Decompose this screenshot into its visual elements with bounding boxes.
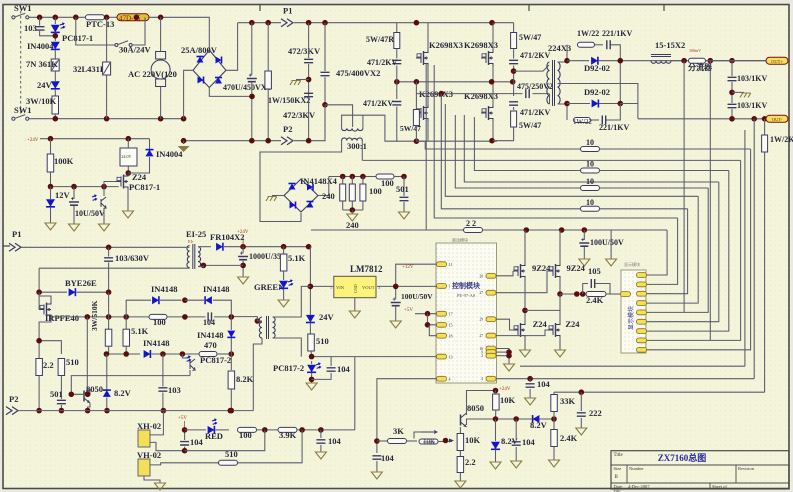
wire [732,91,744,93]
svg-text:GND: GND [353,284,358,293]
wire [455,115,581,188]
wire [108,263,110,293]
svg-text:控制模块: 控制模块 [452,281,481,290]
capacitor 475/400VX2 [324,23,326,71]
svg-text:27: 27 [479,291,483,295]
capacitor 103/630V [108,247,110,256]
svg-text:Size: Size [614,466,622,471]
wire [108,292,110,329]
wire [106,354,108,390]
svg-text:SW1: SW1 [14,105,31,115]
wire [425,63,427,230]
svg-text:11: 11 [449,262,453,267]
title block [611,451,789,489]
junction [228,408,234,414]
connector OUT+ [766,57,788,64]
row y316.9 [51,316,206,318]
svg-text:BYE26E: BYE26E [65,278,97,288]
wire [671,60,686,62]
wire [106,353,140,355]
junction [579,389,585,395]
wire [611,45,620,104]
wire [162,393,164,411]
wire [320,445,322,452]
svg-text:475/400VX2: 475/400VX2 [336,68,380,78]
wire rail y410 [18,410,253,412]
svg-text:104: 104 [190,437,204,447]
varistor 47D-15 [117,14,149,21]
ground [549,460,560,467]
bottom rail left half-bridge [397,140,497,142]
wire [567,60,589,62]
capacitor 103/1KV upper [731,61,733,76]
wire [638,118,768,120]
ground [490,462,501,469]
junction [161,408,167,414]
switch SW1 bottom [12,117,15,120]
svg-text:Z24: Z24 [132,172,147,182]
wire [583,247,585,259]
junction [85,392,91,398]
ground [555,350,566,357]
junction [48,184,54,190]
junction [489,20,495,26]
zener 24V mid [306,315,315,323]
wire [464,115,719,182]
capacitor 470U/450VX4 [251,23,253,75]
ground [155,483,166,490]
svg-text:IN4148: IN4148 [151,284,177,294]
resistor 100 red [238,427,257,432]
wire base [71,394,84,396]
wire pot loop [414,432,421,439]
wire [496,355,509,357]
wire [533,93,550,95]
junction [582,227,588,233]
junction [511,68,517,74]
ground [278,300,289,307]
wire [103,208,105,224]
junction [85,314,91,320]
junction [299,427,305,433]
wire [459,473,461,482]
wire [496,351,509,353]
collector to +24V [467,391,496,416]
wire [106,75,108,119]
wire [127,172,129,175]
wire [549,94,551,104]
wire [396,66,398,82]
svg-text:10: 10 [586,160,594,169]
transistor 9Z24 a [513,266,518,276]
wire [318,177,329,196]
capacitor 501 [57,400,66,403]
svg-text:IN4148: IN4148 [203,284,229,294]
svg-text:+5V: +5V [178,416,187,421]
svg-text:32L431K: 32L431K [73,64,107,74]
LED GREEN [279,281,288,289]
display pin right y331.1 [637,329,647,334]
svg-text:10: 10 [586,138,594,147]
wire [160,299,182,301]
capacitor 103 riser [158,388,167,391]
wire [403,202,405,212]
wire [184,430,186,440]
junction [506,349,512,355]
wire [580,418,582,428]
resistor 10 at y208.8 [581,206,600,211]
wire [600,148,751,150]
wire [272,195,284,197]
svg-text:224X3: 224X3 [548,43,571,53]
junction [126,136,132,142]
junction [71,184,77,190]
wire [308,98,310,141]
junction [73,14,79,20]
wire P1 rail [238,22,281,24]
ground [525,398,536,405]
ground [45,223,56,230]
junction [580,291,586,297]
svg-text:IN4004: IN4004 [27,41,54,51]
wire [600,187,709,189]
wire [242,260,244,277]
resistor 100K [47,154,54,172]
8.2K column [230,354,232,370]
ground [123,211,134,218]
wire Q4 source [492,121,494,141]
svg-text:3W/10K: 3W/10K [26,96,57,106]
100 pill row316 [149,314,167,319]
dashed link SW1 [20,11,22,114]
wire [343,209,363,211]
ground [371,472,382,479]
junction [229,408,235,414]
svg-text:3W/510K: 3W/510K [90,300,99,331]
junction [394,79,400,85]
svg-text:5W/47: 5W/47 [400,124,421,133]
svg-text:221/1KV: 221/1KV [602,29,632,38]
switch SW1 top [12,16,15,19]
wire [189,267,191,270]
wire [731,82,733,103]
wire [230,389,232,411]
pins 17/15/18 [415,313,437,315]
svg-text:15-15X2: 15-15X2 [655,40,685,50]
border zone ticks [3,5,664,247]
svg-text:IN4148: IN4148 [197,330,223,340]
junction [201,263,207,269]
rail y366.2 [520,365,745,367]
wire VH pin [150,463,219,465]
motor AC 220V fan [156,52,166,60]
right pins cluster to ground [496,349,509,365]
capacitor 105 + resistor 2.4K pair [583,284,588,295]
wire P2 rail right [294,105,325,141]
svg-text:10K: 10K [465,435,481,445]
wire OUT+ rail [599,60,769,62]
wire [595,44,604,46]
resistor 10 at y149 [581,147,600,152]
junction [181,116,187,122]
svg-text:ZX7160总图: ZX7160总图 [658,452,707,463]
wire [39,296,51,302]
9Z24b connections [559,230,561,264]
wire Q2 source [492,66,494,82]
module pin 16 right [486,346,496,351]
junction [106,314,112,320]
junction [360,174,366,180]
junction [104,14,110,20]
wire [311,361,313,364]
svg-text:100: 100 [153,317,166,327]
junction [53,33,59,39]
svg-text:470: 470 [204,340,217,350]
wire [50,187,52,199]
junction [104,116,110,122]
wire riser x765 [764,152,766,392]
wire [396,107,398,142]
svg-text:GREEN: GREEN [254,282,285,292]
wire [230,338,232,354]
wire P2 rail [184,140,281,142]
resistor 240 at 362.9 [360,184,366,201]
diode IN4004 [51,42,60,50]
ground [349,311,360,318]
wire [524,337,526,350]
svg-text:2: 2 [481,354,483,358]
10K pullup [495,391,497,395]
svg-text:2.4K: 2.4K [586,295,604,305]
capacitor 100U/50V right [583,230,585,240]
zener 8.2V bottom [491,442,500,450]
wire [459,427,461,434]
junction [160,351,166,357]
resistor 5.1K column [125,317,127,329]
3K row [377,440,387,442]
svg-text:P2: P2 [283,124,292,134]
wire sec top [558,45,568,62]
wire [183,141,185,144]
wire [395,306,397,321]
port P1 left arrow [9,243,21,251]
wire pin2 [150,442,185,450]
junction [393,284,399,290]
svg-text:3K: 3K [393,426,404,436]
svg-text:Number: Number [629,466,644,471]
svg-text:222: 222 [589,408,602,418]
transistor K2698X3 at 421,58 [416,53,421,63]
capacitor 103 [36,27,45,30]
ground [347,214,358,221]
resistor 240 at 352.3 [349,184,355,201]
wire [493,127,514,141]
svg-text:+5V: +5V [404,308,413,313]
svg-text:EI-25: EI-25 [186,229,206,239]
wire [606,293,620,295]
ground [315,452,326,459]
svg-text:IN4148X4: IN4148X4 [300,176,338,186]
wire [160,17,162,51]
wire [54,89,56,96]
resistor 1W/2K [764,119,766,135]
resistor 10 at y188 [581,186,600,191]
wire [87,389,90,394]
wire riser x745 [744,130,746,366]
wire [706,60,769,62]
wire [515,447,517,461]
resistor 510 bottom [219,460,238,465]
ground [238,277,249,284]
svg-text:AC 220V(120: AC 220V(120 [128,69,177,79]
wire [495,450,497,463]
junction [104,351,110,357]
junction [574,291,580,297]
svg-text:105: 105 [588,266,601,276]
svg-text:4: 4 [449,377,451,382]
nested bus bends to display module [646,149,751,350]
junction [557,291,563,297]
svg-text:显示模块: 显示模块 [627,306,635,330]
display pin right y340.4 [637,338,647,343]
capacitor 104 series [208,312,211,321]
wire [394,176,404,178]
junction [318,427,324,433]
svg-text:104: 104 [337,364,351,374]
transformer EI-25 primary [187,246,190,268]
wire [267,89,269,141]
wire Q3 drain [427,82,429,105]
resistor 10 at y170.5 [581,168,600,173]
wire long 160 row [362,159,740,161]
transistor K2698X3 at 486,58 [481,53,486,63]
resistor 100 horizontal [376,174,394,179]
diode D92-02 bottom [592,100,599,108]
module pin 17 left [437,311,447,316]
display pin right y303.1 [637,301,647,306]
wire P1 rail to mosfets [294,22,514,24]
capacitor 100U/50V [391,303,401,306]
svg-text:File:: File: [614,488,621,492]
junction [53,116,59,122]
svg-text:8.2V: 8.2V [114,388,132,398]
wire [257,429,279,431]
wire [50,207,52,223]
wire [257,320,262,322]
junction [36,408,42,414]
capacitor 471/2KV right-top [509,60,518,63]
wire [267,23,269,71]
svg-text:240: 240 [322,191,335,201]
junction [708,58,714,64]
wire [483,229,668,231]
wire [441,94,581,209]
capacitor 471/2KV lower-left [392,102,401,105]
wire 24V rail [40,138,150,140]
wire [77,291,109,293]
resistor 2.4K [551,430,558,447]
svg-text:471/2KV: 471/2KV [520,51,550,60]
zener 12V [46,199,55,207]
wire LM7812 in [310,285,333,287]
wire [251,82,253,141]
riser to LM7812 / 24V [309,247,311,315]
wire CT primary left/out [342,115,398,141]
wire [230,317,232,330]
wire [238,430,303,463]
svg-text:10K: 10K [423,438,435,446]
svg-text:470U/450VX4: 470U/450VX4 [223,83,271,92]
ground [579,259,590,266]
junction [36,289,42,295]
junction [53,14,59,20]
junction [425,322,431,328]
capacitor 104 under 3.9K [320,430,322,438]
wire pin1 [150,411,163,435]
svg-text:Z24: Z24 [565,319,580,329]
junction [36,338,42,344]
wire Q2 drain [492,23,494,50]
control module box [436,243,497,383]
wire [108,346,110,354]
junction [134,14,140,20]
current transformer 300:1 [325,105,353,127]
svg-text:510: 510 [225,449,238,459]
wire [513,49,515,59]
diode IN4148 c [144,350,151,358]
regulator 7N 361K [51,59,59,71]
wire [559,294,561,323]
wire Q1 drain [427,23,429,50]
svg-text:24V: 24V [37,80,53,90]
junction [729,116,735,122]
svg-text:Sheet of: Sheet of [712,484,727,489]
svg-text:10U/50V: 10U/50V [75,209,105,218]
diode IN4148 a [152,296,159,304]
FR104X2 secondary row [198,246,211,248]
svg-text:驱动模块: 驱动模块 [452,237,468,243]
wire [73,206,75,224]
junction [85,408,91,414]
emitter row y419 [467,419,555,425]
display pin right y349.8 [637,347,647,352]
svg-text:100: 100 [239,430,252,440]
wire [128,157,149,173]
wire [39,291,67,293]
wire [214,316,231,318]
svg-text:103/630V: 103/630V [115,253,150,263]
wire [189,370,191,376]
junction [306,244,312,250]
row y300 upper diode row [126,300,151,317]
wire LM7812 gnd [354,298,356,311]
regulator LM7812 [334,276,376,297]
svg-text:221/1KV: 221/1KV [599,123,629,132]
display module box [621,270,646,353]
junction [249,94,255,100]
junction [229,314,235,320]
resistor 5W/47 lower-right [511,111,517,127]
svg-text:1W/2K: 1W/2K [770,135,793,144]
junction [262,427,268,433]
svg-text:18: 18 [449,334,453,339]
ground [455,481,466,488]
wire [160,87,162,119]
port P1 arrow [281,19,293,27]
svg-text:K2698X3: K2698X3 [429,40,463,50]
svg-text:501: 501 [50,389,63,399]
junction [564,101,570,107]
